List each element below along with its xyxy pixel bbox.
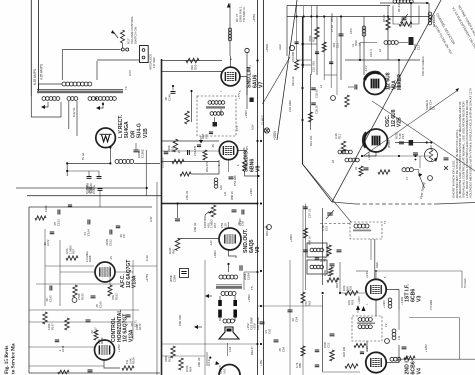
coil L1 top (393, 0, 413, 12)
resistor R169 h (122, 366, 134, 370)
svg-text:L7: L7 (405, 176, 409, 180)
resistor R60 v (175, 239, 179, 251)
capacitor C17 (364, 168, 369, 170)
resistor R63 v (171, 346, 175, 358)
label R64 (185, 365, 192, 372)
switch arrow S1 (111, 30, 118, 38)
wire afc tube left (60, 271, 95, 273)
node bus dot3 (260, 202, 262, 204)
capacitor C12 blob (409, 37, 421, 50)
wire osc rail (362, 155, 431, 157)
svg-text:330K: 330K (164, 355, 168, 362)
svg-text:R5 1K: R5 1K (382, 14, 386, 22)
svg-text:.02: .02 (90, 330, 94, 334)
svg-text:6CB6: 6CB6 (411, 361, 417, 374)
transformer T2 box (352, 316, 382, 341)
wire leader to note (364, 88, 459, 156)
svg-text:20-444: 20-444 (397, 2, 401, 12)
filter can FL2 (307, 260, 327, 274)
wire v13b grid (29, 346, 95, 348)
label R167 (47, 323, 54, 330)
svg-text:R24 100: R24 100 (342, 346, 346, 357)
circle adj pot (72, 298, 77, 303)
svg-text:+4.5V: +4.5V (365, 271, 369, 278)
svg-text:C160: C160 (44, 205, 48, 212)
capacitor C16 (337, 250, 342, 252)
wire bottom rail (162, 343, 259, 345)
coil L20 (214, 178, 223, 190)
svg-text:R56 1K: R56 1K (230, 191, 234, 200)
svg-text:.01: .01 (83, 232, 87, 236)
wire h rail 60 (345, 59, 420, 61)
wire grid h1 (162, 60, 223, 62)
wire center vert2 (289, 260, 291, 375)
svg-text:V1B: V1B (143, 128, 149, 138)
svg-text:100K: 100K (168, 247, 172, 254)
resistor R24 v (330, 350, 334, 361)
capacitor C165 (45, 286, 52, 303)
wire B+ bus left (257, 0, 259, 375)
label pin numbers v8 (218, 164, 240, 166)
wire interlock left drop (61, 50, 63, 81)
label R163 (111, 293, 118, 300)
coil L6 h (378, 41, 398, 52)
wire afc vert c (109, 266, 111, 285)
resistor osc col 3 (309, 112, 313, 122)
svg-text:.02: .02 (291, 318, 295, 322)
wire cap bus (67, 170, 99, 172)
coil L12 v (388, 298, 392, 308)
capacitor if col d (315, 365, 320, 367)
svg-text:R14 15K: R14 15K (309, 135, 313, 146)
capacitor C51 (197, 145, 201, 147)
node bus dot1 (257, 175, 259, 177)
svg-text:150K: 150K (135, 324, 139, 330)
svg-text:L21: L21 (223, 191, 227, 196)
ground arrows V3 (356, 305, 366, 313)
wire v9 plate up (228, 222, 230, 229)
wire center vert3 (302, 205, 304, 375)
label R165 (77, 293, 84, 300)
circle tp2 (331, 96, 336, 101)
svg-text:-1.1V: -1.1V (235, 125, 239, 132)
svg-text:117V: 117V (128, 70, 132, 76)
svg-text:DET: DET (201, 133, 205, 139)
wire snd out top (228, 264, 230, 272)
svg-text:SND.LIM.: SND.LIM. (247, 65, 253, 88)
wire vert m6 (336, 17, 338, 95)
svg-text:5V 3A: 5V 3A (81, 152, 85, 160)
transformer T6 sec B (67, 97, 78, 101)
label 6T8 bottom (219, 368, 227, 374)
capacitor C151 (161, 152, 169, 168)
voice coil (223, 319, 234, 323)
capacitor C19 blob (409, 140, 414, 146)
svg-text:(450V): (450V) (387, 140, 391, 148)
wire osc col vert (310, 74, 312, 130)
label V7 6AU6 SND LIM (247, 65, 265, 88)
wire snd h2 (162, 161, 220, 163)
svg-text:+125V: +125V (367, 152, 371, 160)
capacitor C13 grid (348, 85, 357, 90)
capacitor C65 (260, 322, 272, 334)
capacitor C22 (402, 347, 407, 349)
capacitor C169 (86, 183, 103, 191)
wire section divider v (161, 59, 163, 375)
wire snd divider h (162, 203, 258, 205)
svg-text:20MF: 20MF (243, 273, 247, 280)
node bus dots final (256, 202, 262, 345)
svg-text:R50: R50 (194, 64, 198, 70)
wire bottomleft rail 322 (29, 322, 133, 366)
wire agc out (376, 271, 462, 279)
circle tp3 (428, 176, 433, 181)
svg-text:165V: 165V (219, 109, 223, 115)
capacitor C174 (55, 340, 65, 352)
resistor R9 v (291, 60, 299, 86)
svg-text:6.35 AMPS: 6.35 AMPS (33, 69, 37, 85)
svg-text:+255V: +255V (252, 14, 256, 22)
svg-text:5U4-G: 5U4-G (137, 123, 143, 138)
capacitor C18 plus (444, 158, 449, 170)
capacitor C52 small (209, 132, 213, 134)
speaker LS1 (219, 327, 239, 352)
wire R17 to interlock (122, 43, 124, 48)
label speaker notes (246, 317, 260, 330)
wire tuner jog2 (324, 74, 337, 76)
transformer Z1 coil top (206, 101, 225, 109)
capacitor C10 (312, 52, 320, 72)
capacitor C161 (68, 205, 72, 207)
wire V1B cathode down (67, 147, 110, 163)
wire tuner B+ vert (302, 17, 304, 164)
wire horiz cath (104, 360, 120, 368)
label small 1ST AUDIO (201, 133, 209, 139)
wire center h rail (258, 305, 323, 307)
label C180C (137, 149, 145, 158)
svg-text:.05: .05 (130, 323, 134, 327)
node afc dot (209, 357, 211, 359)
resistor R26 h (404, 356, 415, 360)
wire interlock mid (97, 59, 140, 61)
label C149 (164, 94, 172, 101)
resistor R23 h (345, 364, 358, 368)
label V9 6AQ5 SND OUT (243, 228, 261, 253)
svg-text:L3: L3 (351, 44, 355, 47)
svg-text:+120V: +120V (357, 296, 361, 304)
label tuner note diag (451, 5, 475, 59)
capacitor osc col 2 (311, 103, 318, 114)
capacitor C180B (97, 171, 102, 178)
resistor R65 v (295, 346, 305, 368)
svg-text:6BN6: 6BN6 (250, 159, 256, 172)
wire vert t2 (316, 6, 318, 76)
svg-text:C51 470: C51 470 (193, 145, 197, 156)
coil L7 fine tuning (402, 168, 419, 180)
svg-text:L6: L6 (378, 48, 382, 52)
capacitor C180C (134, 143, 139, 152)
circle test point (289, 45, 294, 50)
wire agc end drop (462, 271, 467, 288)
wire audio couple (177, 204, 179, 219)
svg-text:R51 47K: R51 47K (205, 161, 209, 172)
resistor R22 vertical (185, 111, 189, 124)
transformer T2 coil bottom (358, 325, 372, 329)
coil L4 osc (354, 26, 366, 46)
wire diagonal D2 (332, 0, 441, 202)
wire vc l (219, 314, 221, 321)
circle V7 top terminal (245, 48, 249, 109)
wire c12 rail (399, 42, 408, 44)
wire v3 grid (340, 292, 365, 294)
label AFC arrow (207, 352, 211, 366)
wire AFC box bottom (29, 372, 160, 374)
node dots psu (66, 146, 111, 172)
svg-text:+290V: +290V (265, 44, 269, 52)
coil L18 (228, 28, 231, 41)
wire vert m5 (330, 17, 332, 88)
wire vert t1 (286, 6, 288, 57)
svg-text:6T8: 6T8 (205, 134, 209, 139)
wire v9 grid (178, 238, 219, 240)
tube V4 6CB6 2nd IF (366, 352, 386, 372)
capacitor C8 (291, 42, 299, 62)
svg-text:T2: T2 (384, 323, 388, 327)
wire if left vert2 (322, 295, 324, 372)
label V13A horizontal control (111, 310, 134, 342)
node top dots (340, 2, 428, 18)
wire v9 cath (229, 249, 237, 258)
wire choke right (134, 162, 160, 164)
svg-text:+16V: +16V (259, 359, 263, 366)
resistor if col b (329, 267, 333, 276)
node mix dots (359, 59, 400, 61)
svg-text:C8 1500: C8 1500 (291, 51, 295, 62)
svg-text:27K: 27K (97, 339, 101, 344)
svg-text:1500: 1500 (323, 341, 327, 348)
wire primary left (39, 84, 63, 91)
svg-text:V13A: V13A (132, 275, 138, 288)
label R2 (308, 35, 315, 42)
svg-text:+77V: +77V (237, 92, 241, 99)
capacitor if col a (315, 258, 320, 260)
capacitor C54 (229, 175, 238, 186)
svg-text:-1.1V: -1.1V (364, 65, 368, 72)
resistor R13 h (359, 166, 390, 176)
svg-text:L8: L8 (331, 159, 335, 163)
wire afc tube right (115, 271, 133, 273)
label R12 (334, 133, 341, 139)
capacitor C164 (83, 220, 90, 237)
svg-text:V13A: V13A (128, 329, 134, 342)
svg-text:-12V: -12V (209, 240, 213, 246)
wire top rail 1 (287, 5, 390, 7)
wire l6 rail (360, 43, 377, 61)
wire callout diagonal D3 (372, 101, 475, 171)
label GND C14 (425, 99, 436, 110)
wire if top right (409, 318, 459, 360)
svg-text:LS1: LS1 (228, 346, 232, 352)
wire vert m4 (323, 17, 325, 80)
svg-text:V9: V9 (255, 247, 261, 253)
coil L5 v (428, 12, 436, 27)
node dots snd (172, 85, 230, 265)
transformer T6 primary (62, 82, 92, 86)
svg-text:L2: L2 (319, 85, 323, 88)
tube V7 6AU6 (221, 67, 240, 86)
capacitor C21 (323, 334, 335, 348)
capacitor C58A (169, 269, 189, 283)
label V8 6BN6 SND DISC (244, 145, 262, 172)
capacitor C63A (240, 265, 250, 280)
svg-text:C55: C55 (220, 222, 224, 228)
coil L10 v (392, 329, 396, 340)
circle xcirc 22meg (261, 115, 270, 133)
svg-text:+140V: +140V (249, 188, 253, 196)
tube V9 6AQ5 (219, 228, 241, 250)
transformer T6 core (37, 90, 123, 94)
wire snd grid 151 (162, 150, 220, 152)
svg-text:C6 5: C6 5 (349, 28, 353, 34)
svg-text:117 VAC: 117 VAC (152, 57, 156, 68)
resistor R25 h (354, 344, 366, 348)
svg-text:C7 10: C7 10 (330, 24, 334, 32)
svg-text:TO SND: TO SND (429, 300, 433, 310)
wire t1 down (370, 239, 372, 260)
tube V3 6CB6 1st IF (366, 279, 386, 299)
tube V2A 1/2 6U8 mixer (364, 72, 386, 94)
wire v3 plate right (386, 290, 399, 311)
wire r54 bus (245, 171, 259, 176)
label horiz freq (135, 323, 142, 330)
svg-text:C26 25: C26 25 (315, 105, 319, 114)
label R7 47K (400, 21, 408, 26)
svg-text:1W: 1W (125, 359, 129, 364)
svg-text:MIXER: MIXER (397, 74, 403, 90)
svg-text:+255V: +255V (289, 234, 293, 242)
wire col 305 (305, 204, 307, 291)
wire sec A loop (31, 96, 61, 117)
capacitor C167 (86, 320, 98, 334)
svg-text:C59 .005: C59 .005 (178, 315, 182, 326)
trimmer fine tuning (419, 173, 426, 199)
wire snd h1 (162, 140, 220, 142)
svg-text:4.7K: 4.7K (295, 362, 299, 368)
resistor R58 h (180, 172, 191, 176)
resistor R16 v (327, 245, 331, 256)
node osc dots (361, 155, 417, 157)
circle bus tp (265, 225, 272, 230)
capacitor C56 (237, 210, 244, 227)
tube V2B 1/2 6U8 osc (363, 129, 387, 152)
label R62 (304, 300, 311, 306)
wire tuner boundary (332, 202, 475, 204)
svg-text:+140V: +140V (400, 297, 404, 305)
wire afc top drop (99, 191, 101, 208)
wire t1 dash lead (320, 223, 351, 225)
capacitor C18b pair (413, 153, 418, 160)
coil L9 (345, 158, 359, 170)
svg-text:+125V: +125V (424, 344, 428, 352)
capacitor col305 a (303, 207, 311, 218)
capacitor C63 electrolytic (233, 300, 237, 318)
svg-text:1ST I.F.: 1ST I.F. (405, 284, 411, 302)
svg-text:0.5V: 0.5V (251, 124, 255, 130)
node choke junction (109, 162, 111, 164)
transformer T2 core (357, 322, 375, 324)
svg-text:C151 .02: C151 .02 (161, 157, 165, 168)
wire spk gnd drop (227, 343, 229, 356)
arrow snd input top (227, 3, 231, 8)
capacitor bus blob (250, 98, 254, 103)
wire if bottom h (323, 371, 360, 373)
label pin numbers v7 (220, 58, 242, 92)
wire grid h2 (162, 71, 223, 73)
label R19 (347, 299, 354, 305)
svg-text:T6: T6 (124, 86, 128, 90)
capacitor Z1 trimmer (213, 117, 218, 127)
capacitor coupling (175, 219, 180, 221)
wire B+ bus right (263, 0, 265, 375)
wire spk right (234, 296, 236, 301)
capacitor C62 electrolytic (218, 300, 222, 318)
svg-text:SHORT IN INCH OR LESS.: SHORT IN INCH OR LESS. (452, 160, 456, 198)
capacitor C11 (332, 34, 344, 48)
svg-text:AGC: AGC (375, 262, 379, 268)
svg-text:C54 680: C54 680 (233, 175, 237, 186)
svg-text:.01: .01 (264, 330, 268, 334)
svg-text:SHIELD: SHIELD (425, 100, 429, 110)
resistor R62 v (301, 292, 305, 303)
label R60 (168, 247, 175, 254)
label V2B osc (385, 109, 403, 127)
resistor R50 (186, 58, 199, 62)
svg-text:+150V: +150V (244, 110, 248, 118)
node tuner rail dots (426, 141, 433, 143)
wire bus tap diag (263, 57, 291, 104)
wire afc grid (45, 265, 94, 267)
wire psu drop 146 (145, 150, 147, 196)
capacitor if col c (315, 350, 320, 352)
transformer T1 box (350, 222, 382, 239)
resistor R161 h (35, 216, 46, 220)
label R57 1MEG (65, 245, 76, 254)
label V4 6CB6 2ND IF (405, 355, 423, 374)
resistor R170 v (94, 330, 104, 344)
resistor R165 v (73, 285, 77, 297)
svg-text:30MF: 30MF (169, 275, 173, 282)
svg-text:C60 .02: C60 .02 (197, 357, 201, 367)
resistor R19 h (345, 291, 358, 295)
node if dots (322, 292, 342, 294)
wire v3 cath down (375, 300, 377, 316)
svg-text:GRID PIN 1: GRID PIN 1 (239, 6, 243, 22)
wire v4 plate right (386, 345, 399, 363)
svg-text:10%: 10% (342, 285, 346, 291)
svg-text:+170V: +170V (117, 344, 121, 352)
svg-text:TO SND I.F.: TO SND I.F. (242, 6, 246, 22)
wire vert t4 (363, 17, 365, 76)
node sec C dot (95, 98, 97, 100)
svg-text:C180C: C180C (141, 149, 145, 158)
svg-text:0.4V: 0.4V (149, 216, 153, 222)
wire afc right rail (130, 265, 157, 267)
capacitor C171 (126, 315, 138, 327)
svg-text:V2B: V2B (397, 117, 403, 127)
svg-text:+275V: +275V (145, 274, 149, 282)
wire sec B drop R (76, 101, 78, 136)
resistor R18 h (327, 278, 339, 282)
